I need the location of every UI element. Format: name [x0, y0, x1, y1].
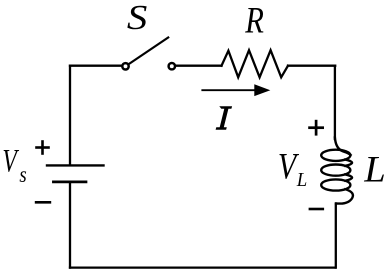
svg-text:V: V — [2, 144, 19, 180]
svg-text:L: L — [363, 149, 385, 190]
svg-text:V: V — [278, 147, 299, 188]
svg-text:L: L — [296, 169, 307, 191]
svg-text:s: s — [19, 161, 26, 187]
svg-text:S: S — [127, 0, 147, 37]
svg-text:R: R — [244, 1, 264, 41]
